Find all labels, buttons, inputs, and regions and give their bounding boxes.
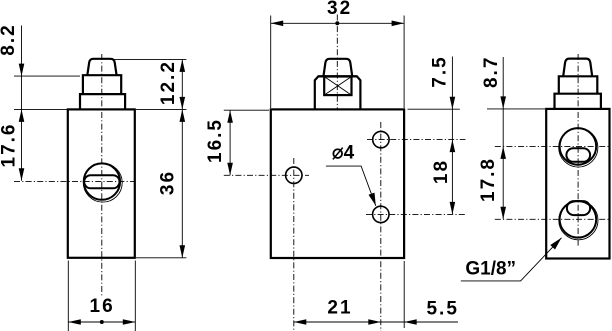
arrow down at right body-top (8.7)	[500, 96, 506, 109]
arrow left at 21 left	[294, 319, 307, 325]
arrow down at cap-bottom ext (8.2)	[19, 64, 25, 77]
extension line right body-top left side	[487, 108, 545, 110]
dim 7.5/18 vertical line	[451, 57, 453, 215]
svg-text:12.2: 12.2	[158, 60, 179, 105]
dim 16 horizontal line	[68, 321, 135, 323]
extension line body-bottom left view (right side)	[136, 257, 186, 259]
middle X-box diagonal 2	[324, 77, 351, 96]
svg-text:16: 16	[90, 296, 115, 317]
right tier3	[555, 94, 601, 109]
middle left hole horizontal center line	[224, 174, 309, 176]
middle left hole vertical center line	[293, 158, 295, 331]
extension line cap-bottom left view	[14, 75, 80, 77]
svg-text:21: 21	[327, 297, 352, 318]
extension line left body bottom-left	[67, 261, 69, 331]
svg-text:8.7: 8.7	[481, 56, 502, 88]
middle collar top edge	[318, 75, 357, 77]
right lower port horizontal center line	[495, 218, 609, 220]
middle lower right hole horizontal center line	[366, 213, 466, 215]
right upper port horizontal center line	[495, 145, 609, 147]
dot 16 center	[100, 320, 104, 324]
middle body	[271, 109, 404, 258]
middle center line	[336, 15, 338, 111]
middle left hole	[286, 167, 302, 183]
dim 32 horizontal line	[271, 22, 404, 24]
left view horizontal center line	[14, 181, 136, 183]
right cap	[563, 59, 592, 77]
svg-text:18: 18	[431, 159, 452, 184]
svg-text:32: 32	[327, 0, 352, 19]
right upper port thick circle	[560, 128, 597, 165]
left view body	[68, 109, 135, 257]
arrow up at cap-top (12.2)	[180, 59, 186, 72]
arrow down at middle body-top (7.5)	[450, 97, 456, 110]
middle collar	[315, 76, 361, 109]
arrow left at 32 left	[271, 21, 284, 27]
svg-text:G1/8”: G1/8”	[465, 259, 516, 280]
extension line 32 left	[270, 16, 272, 109]
arrow up at body-top (17.6)	[19, 109, 25, 122]
dim 8.7/17.8 vertical line	[502, 57, 504, 219]
arrow G1/8 leader	[550, 238, 561, 250]
arrow o4 leader	[369, 193, 376, 206]
extension line 32 right	[403, 16, 405, 109]
svg-text:36: 36	[158, 170, 179, 195]
middle cap	[324, 59, 353, 76]
dot 32 center	[335, 21, 339, 25]
left view screw outer thin circle	[83, 163, 122, 202]
right lower port slot	[567, 201, 590, 215]
arrow left at 16 left	[68, 319, 81, 325]
dim 8.2/17.6 vertical line	[21, 26, 23, 181]
dim 12.2/36 vertical line	[181, 59, 183, 257]
middle X-box diagonal 1	[324, 77, 351, 96]
extension line cap-top left view (right side)	[114, 58, 186, 60]
right body	[546, 109, 609, 259]
right tier2	[559, 76, 598, 93]
arrow down at body-bottom (36)	[180, 245, 186, 257]
arrow down at lower port center (17.8)	[500, 207, 506, 220]
dim 16.5 vertical line	[229, 110, 231, 175]
arrow down at body-top (12.2)	[180, 97, 186, 110]
arrow right at 16 right	[123, 319, 136, 325]
left view tier2	[83, 75, 121, 94]
phi symbol slash of o4 label	[333, 148, 343, 160]
extension line left body bottom-right	[134, 261, 136, 331]
dim 21/5.5 horizontal line	[294, 321, 458, 323]
svg-text:4: 4	[344, 143, 355, 164]
arrow right at 21 right	[368, 319, 381, 325]
arrow up at upper port center (17.8)	[500, 146, 506, 159]
extension line body-top left view (right side)	[136, 108, 186, 110]
svg-text:8.2: 8.2	[0, 23, 19, 55]
middle upper right hole	[373, 131, 389, 147]
middle lower right hole	[373, 206, 389, 222]
right lower port thin circle	[559, 201, 598, 240]
svg-text:17.8: 17.8	[478, 157, 499, 202]
middle X-box	[324, 77, 351, 96]
right lower port thick circle	[560, 201, 597, 238]
right upper port slot	[566, 148, 590, 162]
leader G1/8	[461, 238, 562, 281]
middle upper right hole horizontal center line	[367, 139, 466, 141]
left view screw slot	[84, 175, 119, 188]
extension line 5.5 (middle body right edge)	[403, 261, 405, 328]
svg-text:7.5: 7.5	[430, 55, 451, 87]
middle right holes vertical center line	[380, 122, 382, 331]
arrow down at 16.5 bottom	[227, 163, 233, 176]
arrow up at 16.5 top	[227, 110, 233, 123]
left view screw thick circle	[84, 163, 120, 199]
svg-text:17.6: 17.6	[0, 123, 20, 168]
arrow up at upper hole center (18)	[450, 140, 456, 153]
leader o4	[326, 166, 376, 206]
arrow right at 32 right	[392, 21, 405, 27]
right upper port thin circle	[559, 128, 598, 167]
right vertical center line	[577, 54, 579, 246]
arrow down at lower hole center (18)	[450, 202, 456, 215]
extension line body-top left view (left side)	[14, 108, 69, 110]
svg-text:5.5: 5.5	[426, 299, 458, 320]
phi symbol circle of o4 label	[333, 149, 342, 158]
extension line middle body-top right side	[408, 108, 460, 110]
left view vertical center line	[101, 54, 103, 296]
arrow down at screw center line (17.6)	[19, 168, 25, 181]
left view tier3	[80, 94, 125, 109]
extension line 16.5 top	[224, 109, 269, 111]
arrow up at body-top (36)	[180, 109, 186, 122]
arrow left at 5.5 right (outside)	[404, 319, 417, 325]
left view cap	[87, 59, 116, 76]
svg-text:16.5: 16.5	[205, 118, 226, 163]
